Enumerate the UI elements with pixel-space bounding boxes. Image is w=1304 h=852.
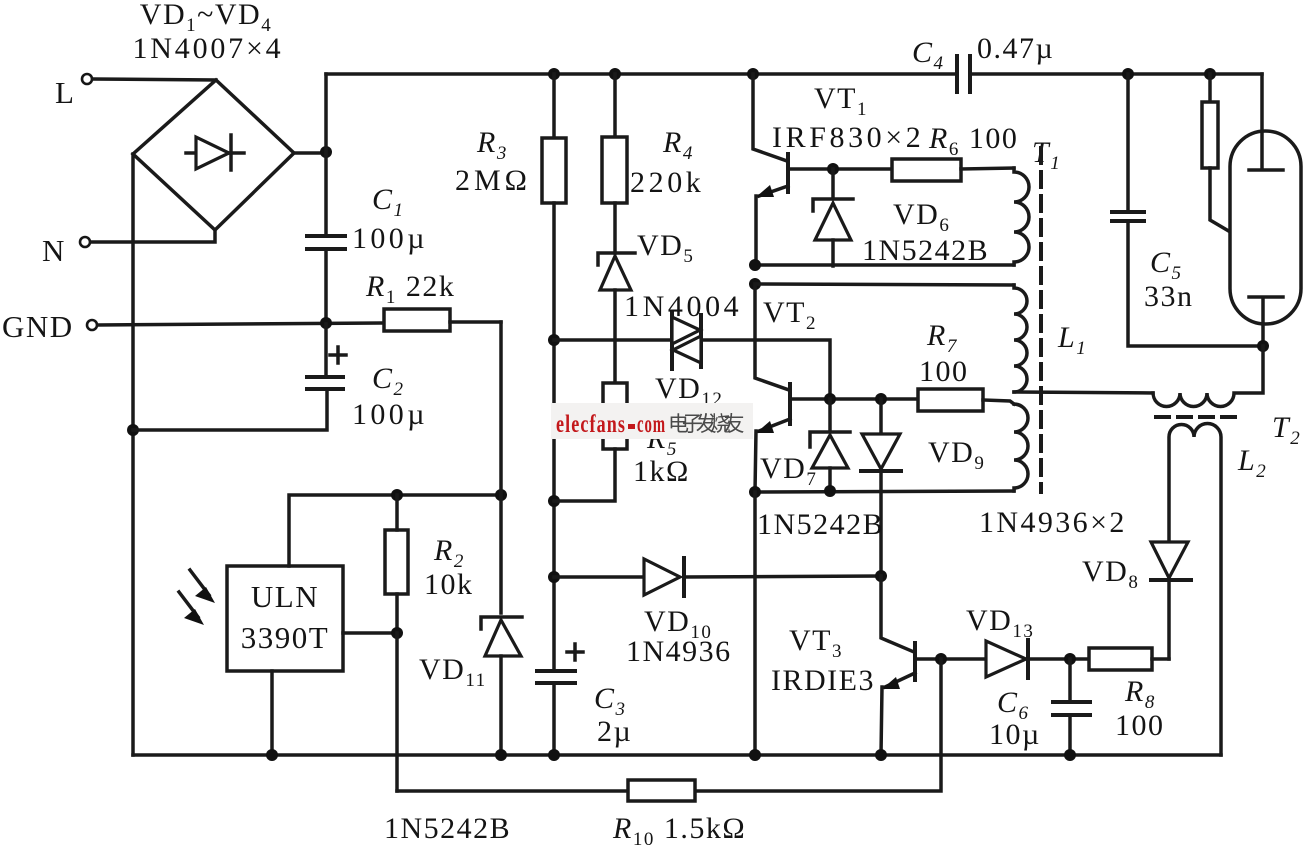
svg-text:GND: GND: [2, 309, 74, 344]
transistor VT1: [753, 74, 788, 265]
node VT2 emitter ground: [749, 749, 761, 761]
svg-text:10k: 10k: [424, 568, 474, 601]
wire VD10 row: [554, 576, 881, 577]
wire C2 bottom return: [133, 391, 327, 430]
node VD7 top: [824, 393, 836, 405]
svg-text:1N5242B: 1N5242B: [862, 234, 989, 267]
watermark elecfans: [551, 403, 753, 439]
transformer T2 primary: [1153, 346, 1263, 407]
capacitor C3: [537, 644, 583, 755]
wire VT3 base row: [916, 657, 1089, 661]
svg-text:1kΩ: 1kΩ: [633, 455, 690, 488]
resistor R3: [542, 74, 566, 670]
svg-text:IRDIE3: IRDIE3: [771, 664, 875, 697]
node lamp ballast top: [1204, 68, 1216, 80]
wire L1 bottom to T2: [1014, 392, 1153, 393]
node R1 drop: [495, 489, 507, 501]
bridge rectifier VD1-VD4: [133, 80, 294, 230]
node GND junction: [320, 317, 332, 329]
svg-text:N: N: [42, 233, 66, 268]
node VD7 bottom: [824, 485, 836, 497]
svg-text:100µ: 100µ: [352, 222, 428, 255]
svg-text:1N4007×4: 1N4007×4: [133, 32, 284, 65]
wire VT2 base row: [791, 397, 918, 401]
node VD10 line left: [548, 571, 560, 583]
node bridge DC+: [320, 146, 332, 158]
lamp ballast resistor: [1202, 74, 1266, 253]
node ULN ground: [266, 749, 278, 761]
top rail right segment: [970, 72, 1262, 76]
wire ULN bottom pin: [270, 671, 274, 755]
svg-text:com: com: [637, 411, 666, 438]
wire ULN top pin: [289, 495, 501, 566]
capacitor C4: [957, 56, 970, 92]
svg-text:1N4936×2: 1N4936×2: [979, 506, 1127, 539]
diode VD9: [861, 399, 901, 576]
node VT2 emitter: [749, 486, 761, 498]
capacitor C1: [307, 236, 345, 323]
wire R1 corner down: [499, 322, 503, 613]
zener diode VD6: [813, 169, 853, 266]
svg-text:2µ: 2µ: [597, 715, 632, 748]
capacitor C2: [307, 324, 346, 389]
wire VT2 emitter to bottom rail: [753, 492, 757, 755]
capacitor C5: [1112, 74, 1263, 346]
winding T1 c: [1014, 404, 1028, 491]
node VT1 drain top: [747, 68, 759, 80]
svg-text:1N5242B: 1N5242B: [757, 508, 884, 541]
resistor R6: [892, 159, 1014, 181]
wire VD12 line: [554, 340, 830, 399]
wire VT2 cell top: [755, 284, 1014, 285]
svg-text:VD1~VD4: VD1~VD4: [140, 0, 272, 36]
svg-text:33n: 33n: [1144, 280, 1194, 313]
node C2 return: [127, 424, 139, 436]
resistor R10: [628, 780, 695, 801]
node ULN pin R2 bottom: [391, 627, 403, 639]
wire VT2 emitter row: [755, 491, 1014, 492]
wire VT1 drain row: [790, 167, 892, 171]
winding T1 a: [1014, 168, 1029, 265]
terminal GND: [2, 309, 97, 344]
resistor R7: [918, 389, 1014, 411]
svg-text:1N5242B: 1N5242B: [384, 812, 511, 845]
svg-text:L: L: [55, 75, 75, 110]
resistor R8: [1089, 648, 1169, 670]
resistor R2: [385, 495, 408, 633]
svg-text:3390T: 3390T: [241, 620, 329, 655]
wire VT1 cell bottom: [755, 263, 1014, 267]
svg-text:电子发烧友: 电子发烧友: [668, 412, 746, 436]
svg-text:IRF830×2: IRF830×2: [772, 121, 924, 154]
svg-text:1N4004: 1N4004: [624, 290, 742, 323]
node lamp bottom: [1257, 340, 1269, 352]
zener diode VD5: [598, 253, 635, 383]
svg-text:R1 22k: R1 22k: [365, 270, 455, 308]
lower rail R10: [397, 659, 941, 791]
node VD10 right: [875, 570, 887, 582]
node VD9 top: [875, 393, 887, 405]
resistor R1: [384, 309, 501, 331]
terminal L: [55, 74, 92, 110]
node C3 ground: [548, 749, 560, 761]
resistor R4: [602, 74, 627, 253]
svg-text:R6 100: R6 100: [928, 122, 1018, 160]
diode VD13: [986, 640, 1028, 678]
svg-text:2MΩ: 2MΩ: [455, 164, 531, 197]
node VT1 emitter bottom: [749, 259, 761, 271]
svg-text:220k: 220k: [630, 166, 704, 199]
node R4 top: [609, 68, 621, 80]
svg-text:ULN: ULN: [251, 579, 319, 614]
node VT3 base: [935, 653, 947, 665]
node VT2 collector top: [749, 278, 761, 290]
bottom rail: [133, 753, 1221, 757]
svg-text:0.47µ: 0.47µ: [977, 32, 1054, 65]
wire main vertical x=326 top: [324, 74, 328, 234]
transistor VT3: [881, 576, 915, 755]
zener diode VD7: [810, 399, 850, 492]
svg-text:10µ: 10µ: [989, 718, 1041, 751]
wire GND to node: [98, 323, 384, 325]
zener diode VD11: [481, 617, 522, 755]
diode pair VD12 / 1N4004: [672, 312, 701, 369]
light arrows: [179, 570, 215, 625]
svg-text:100µ: 100µ: [352, 398, 428, 431]
svg-text:1N4936: 1N4936: [626, 635, 732, 668]
transistor VT2: [755, 284, 790, 492]
diode VD8: [1151, 542, 1191, 659]
capacitor C6: [1053, 659, 1090, 755]
node C5 top: [1122, 68, 1134, 80]
diode VD10: [644, 558, 684, 596]
svg-text:elecfans: elecfans: [556, 411, 626, 438]
node R2 top: [391, 489, 403, 501]
node C6 ground: [1064, 749, 1076, 761]
dashed core T2: [1156, 415, 1240, 419]
top rail left segment: [326, 72, 957, 76]
node VT3 emitter ground: [875, 749, 887, 761]
node C6 top: [1064, 653, 1076, 665]
transformer T2 secondary L2: [1169, 423, 1221, 755]
node VD11 ground: [495, 749, 507, 761]
node VD12 line left: [548, 334, 560, 346]
wire ULN right pin: [343, 631, 397, 635]
wire bridge DC+ to C1 line: [294, 151, 326, 155]
wire left vertical (bridge left corner to bottom rail): [131, 154, 135, 755]
node VD6 top: [827, 163, 839, 175]
wire L to bridge: [93, 79, 216, 80]
svg-text:100: 100: [919, 355, 969, 388]
fluorescent lamp tube: [1230, 74, 1301, 346]
svg-text:100: 100: [1115, 709, 1165, 742]
wire N to bridge: [91, 231, 215, 242]
node R3 top: [548, 68, 560, 80]
resistor R5: [554, 383, 627, 501]
photocontrol IC ULN3390T: [227, 566, 343, 671]
svg-text:R10 1.5kΩ: R10 1.5kΩ: [612, 812, 746, 850]
node R5 bottom left: [548, 495, 560, 507]
terminal N: [42, 233, 90, 268]
dashed core T1: [1039, 148, 1043, 492]
wire R2 bottom to lower rail: [395, 633, 399, 791]
winding T1 b (L1): [1014, 285, 1027, 392]
